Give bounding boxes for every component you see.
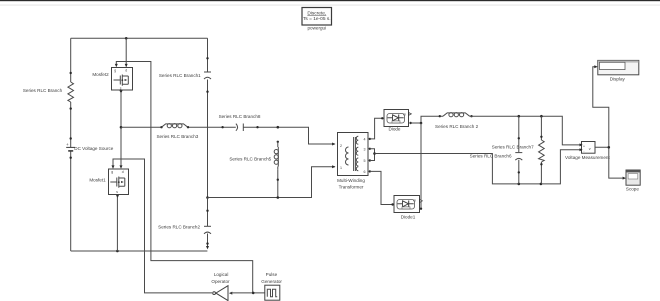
top window border bbox=[0, 0, 660, 6]
wire left vertical (source branch) bbox=[70, 38, 72, 251]
svg-text:Mosfet1: Mosfet1 bbox=[89, 177, 106, 182]
svg-text:-: - bbox=[583, 149, 584, 153]
svg-text:Series RLC Branch3: Series RLC Branch3 bbox=[156, 134, 198, 139]
svg-text:Operator: Operator bbox=[211, 279, 230, 284]
svg-text:s: s bbox=[116, 190, 118, 194]
mosfet U1 (Mosfet1) bbox=[109, 169, 129, 195]
svg-text:+: + bbox=[66, 142, 69, 147]
capacitor C1 branch vertical (Series RLC Branch1) bbox=[204, 38, 211, 197]
label Mosfet1 bbox=[89, 177, 106, 182]
label Logical Operator bbox=[211, 272, 230, 284]
wire transformer port6 down to diode1 input bbox=[369, 170, 393, 204]
wire pulse generator to NOT input bbox=[231, 292, 265, 295]
capacitor C2 branch vertical (Series RLC Branch2) bbox=[204, 198, 211, 250]
inductor L3 (Series RLC Branch3) bbox=[160, 124, 189, 129]
wire secondary common rail bbox=[375, 150, 582, 185]
capacitor C8 (Series RLC Branch8) bbox=[221, 124, 258, 132]
scope block bbox=[626, 170, 640, 185]
svg-text:s: s bbox=[120, 86, 122, 90]
svg-text:g: g bbox=[114, 69, 116, 73]
wire top output rail to VM plus bbox=[472, 115, 582, 145]
resistor R (Series RLC Branch) bbox=[68, 72, 74, 110]
svg-text:Series RLC Branch: Series RLC Branch bbox=[23, 88, 63, 93]
svg-text:5: 5 bbox=[364, 159, 366, 163]
svg-text:Series RLC Branch5: Series RLC Branch5 bbox=[229, 157, 271, 162]
pulse generator block bbox=[265, 285, 280, 300]
svg-text:Mosfet2: Mosfet2 bbox=[92, 72, 109, 77]
display block bbox=[598, 60, 639, 74]
svg-text:Discrete,: Discrete, bbox=[307, 10, 326, 16]
svg-text:Logical: Logical bbox=[214, 272, 229, 277]
transformer mid ports join bbox=[369, 148, 376, 162]
svg-text:Multi-Winding: Multi-Winding bbox=[337, 178, 365, 183]
wire mosfet1 source to bottom rail bbox=[116, 195, 119, 251]
powergui label bbox=[307, 25, 326, 30]
label Scope bbox=[626, 186, 639, 191]
label Series RLC Branch bbox=[23, 88, 63, 93]
label Series RLC Branch3 bbox=[156, 134, 198, 139]
mosfet U2 (Mosfet2) bbox=[112, 68, 133, 91]
label Series RLC Branch5 bbox=[229, 157, 271, 162]
wire mosfet2 drain from top rail bbox=[125, 37, 128, 67]
resistor R6 branch vertical bbox=[539, 116, 545, 184]
svg-text:powergui: powergui bbox=[307, 25, 326, 30]
label Series RLC Branch8 bbox=[219, 114, 261, 119]
wire mosfet2 gate (from NOT chain vertical) bbox=[115, 62, 253, 293]
label Series RLC Branch6 bbox=[470, 154, 512, 159]
svg-text:3: 3 bbox=[364, 147, 366, 151]
wire top rail bbox=[71, 37, 208, 39]
wire mosfet2 source down to mosfet1 drain bbox=[120, 91, 123, 167]
powergui block bbox=[302, 8, 332, 26]
svg-text:DC Voltage Source: DC Voltage Source bbox=[74, 146, 114, 151]
NOT gate U3 (Logical Operator) bbox=[213, 286, 233, 301]
svg-text:Display: Display bbox=[610, 76, 626, 81]
wire mosfet1 gate loop from NOT output bbox=[112, 159, 213, 293]
wire bottom rail bbox=[71, 250, 208, 253]
svg-text:Ts = 1e-05 s.: Ts = 1e-05 s. bbox=[303, 16, 331, 22]
svg-text:d: d bbox=[122, 170, 124, 174]
svg-text:Series RLC Branch1: Series RLC Branch1 bbox=[159, 73, 201, 78]
svg-text:6: 6 bbox=[364, 170, 366, 174]
svg-text:2: 2 bbox=[340, 144, 342, 148]
svg-text:Diode1: Diode1 bbox=[401, 215, 416, 220]
label Series RLC Branch7 bbox=[492, 145, 534, 150]
arrow into mosfet1 drain bbox=[120, 165, 123, 168]
svg-text:Series RLC Branch6: Series RLC Branch6 bbox=[470, 154, 512, 159]
wire transformer port4 up to diode input bbox=[369, 118, 383, 140]
svg-text:Series RLC Branch8: Series RLC Branch8 bbox=[219, 114, 261, 119]
wire diode output to junction and up to inductor bbox=[411, 116, 440, 124]
wire lower mid rail to transformer port1 bbox=[206, 167, 335, 199]
label Mosfet2 bbox=[92, 72, 109, 77]
wire VM output to display and scope bbox=[593, 65, 626, 179]
label Series RLC Branch1 bbox=[159, 73, 201, 78]
transformer T1 (Multi-Winding Transformer) bbox=[332, 133, 368, 176]
inductor Lout (Series RLC Branch 2) bbox=[439, 113, 473, 118]
svg-text:Series RLC Branch2: Series RLC Branch2 bbox=[158, 225, 200, 230]
svg-text:Voltage Measurement: Voltage Measurement bbox=[565, 155, 610, 160]
svg-text:1: 1 bbox=[340, 166, 342, 170]
label Voltage Measurement bbox=[565, 155, 610, 160]
svg-text:Transformer: Transformer bbox=[339, 185, 364, 190]
label Series RLC Branch 2 bbox=[435, 124, 479, 129]
DC voltage source battery bbox=[66, 137, 75, 159]
svg-text:g: g bbox=[111, 170, 113, 174]
label Multi-Winding Transformer bbox=[337, 178, 365, 190]
label Pulse Generator bbox=[261, 272, 282, 284]
label Diode bbox=[388, 127, 400, 132]
svg-text:Pulse: Pulse bbox=[266, 272, 278, 277]
capacitor C7 branch (Series RLC Branch7) bbox=[515, 116, 522, 184]
svg-text:m: m bbox=[403, 112, 406, 116]
label DC Voltage Source bbox=[74, 146, 114, 151]
svg-text:d: d bbox=[125, 69, 127, 73]
svg-text:Diode: Diode bbox=[388, 127, 400, 132]
label Series RLC Branch2 bbox=[158, 225, 200, 230]
diode D1 block (Diode) bbox=[381, 110, 412, 127]
svg-text:Series RLC Branch7: Series RLC Branch7 bbox=[492, 145, 534, 150]
svg-text:v: v bbox=[589, 147, 591, 151]
arrow into mosfet2 drain port bbox=[125, 64, 128, 67]
svg-text:m: m bbox=[413, 198, 416, 202]
svg-text:4: 4 bbox=[364, 137, 366, 141]
svg-text:Scope: Scope bbox=[626, 186, 639, 191]
svg-text:+: + bbox=[583, 144, 585, 148]
wire diode junction down to diode1 output bbox=[420, 123, 422, 209]
label Diode1 bbox=[401, 215, 416, 220]
svg-text:Series RLC Branch 2: Series RLC Branch 2 bbox=[435, 124, 479, 129]
svg-text:Generator: Generator bbox=[261, 279, 282, 284]
diode D2 block (Diode1) bbox=[391, 196, 422, 213]
label Display bbox=[610, 76, 626, 81]
voltage measurement block bbox=[580, 142, 596, 154]
inductor L5 (Series RLC Branch5) vertical bbox=[274, 126, 279, 199]
wire mid rail bbox=[121, 127, 335, 144]
junction mid rail left bbox=[120, 126, 123, 129]
